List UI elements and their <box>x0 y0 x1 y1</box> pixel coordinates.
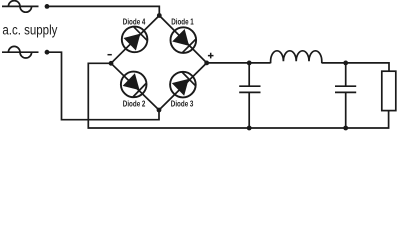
wire: positive rail (bridge to inductor) <box>207 62 271 64</box>
junction: bridge right vertex (positive) <box>204 61 209 66</box>
junction: C1 bottom <box>247 126 252 131</box>
a.c. supply terminal line 1 (top) <box>2 5 39 7</box>
junction: C1 top <box>247 61 252 66</box>
a.c. supply terminal line 2 (bottom) <box>2 51 39 53</box>
junction: bridge top vertex <box>157 13 162 18</box>
junction: C2 bottom <box>343 126 348 131</box>
capacitor C1 <box>239 63 260 128</box>
terminal dot (a.c. line 1) <box>45 4 50 9</box>
a.c. sine symbol 2 <box>8 46 31 58</box>
capacitor C2 <box>335 63 356 128</box>
node label + (positive output) <box>208 53 214 59</box>
resistor R1 (load) <box>382 71 396 110</box>
svg-text:Diode 3: Diode 3 <box>171 98 194 108</box>
bridge edge wire: top to left <box>111 16 159 64</box>
junction: bridge bottom vertex <box>157 108 162 113</box>
svg-text:Diode 1: Diode 1 <box>171 16 194 26</box>
junction: bridge left vertex (negative) <box>109 61 114 66</box>
wire: inductor to load <box>322 63 389 71</box>
bridge edge wire: left to bottom <box>111 63 159 110</box>
junction: C2 top <box>343 61 348 66</box>
wire: a.c. line 1 to bridge top vertex <box>47 6 159 15</box>
diode D4 <box>116 21 152 57</box>
diode D2 <box>116 66 152 102</box>
bridge edge wire: bottom to right <box>159 63 207 110</box>
diode D3 <box>165 66 201 102</box>
wire: negative rail (bridge left vertex to bottom rail) <box>88 63 388 128</box>
svg-text:Diode 2: Diode 2 <box>123 98 146 108</box>
terminal dot (a.c. line 2) <box>45 50 50 55</box>
wire: a.c. line 2 to bridge bottom vertex <box>47 52 159 120</box>
node label - (negative output) <box>108 54 112 56</box>
inductor L1 <box>271 51 322 63</box>
svg-text:Diode 4: Diode 4 <box>123 16 146 26</box>
bridge edge wire: top to right <box>159 16 206 63</box>
a.c. sine symbol 1 <box>8 1 31 13</box>
diode D1 <box>165 22 201 58</box>
svg-text:a.c. supply: a.c. supply <box>2 23 58 39</box>
